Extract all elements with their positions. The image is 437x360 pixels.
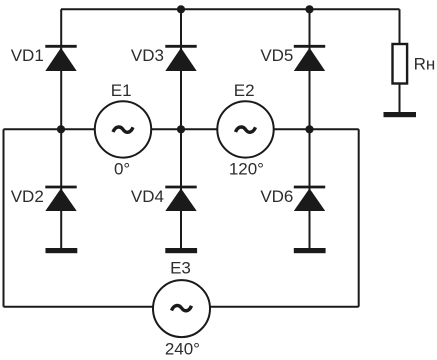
- svg-text:E2: E2: [234, 81, 255, 100]
- svg-text:VD3: VD3: [131, 46, 164, 65]
- svg-text:240°: 240°: [165, 339, 200, 358]
- svg-text:VD1: VD1: [11, 46, 44, 65]
- svg-text:VD5: VD5: [260, 46, 293, 65]
- svg-text:VD2: VD2: [11, 187, 44, 206]
- svg-text:0°: 0°: [114, 159, 130, 178]
- svg-text:Rн: Rн: [414, 55, 436, 74]
- svg-text:VD4: VD4: [131, 187, 164, 206]
- svg-text:VD6: VD6: [260, 187, 293, 206]
- svg-text:120°: 120°: [229, 160, 264, 179]
- svg-text:E3: E3: [170, 259, 191, 278]
- svg-text:E1: E1: [111, 81, 132, 100]
